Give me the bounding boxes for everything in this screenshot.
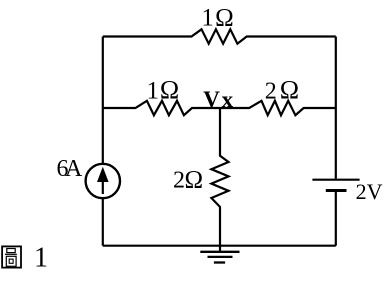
svg-text:Ω: Ω <box>280 76 299 105</box>
svg-text:Ω: Ω <box>215 5 234 32</box>
svg-text:1: 1 <box>147 78 160 105</box>
svg-text:1: 1 <box>201 5 214 32</box>
svg-text:2: 2 <box>356 179 367 204</box>
svg-text:2: 2 <box>173 168 185 194</box>
svg-text:A: A <box>65 156 83 182</box>
svg-text:1: 1 <box>34 242 48 273</box>
svg-text:Ω: Ω <box>160 76 179 105</box>
svg-text:2: 2 <box>265 79 277 105</box>
svg-text:V: V <box>203 87 220 112</box>
svg-text:x: x <box>222 87 234 112</box>
svg-text:Ω: Ω <box>185 167 204 194</box>
svg-text:V: V <box>367 179 383 204</box>
